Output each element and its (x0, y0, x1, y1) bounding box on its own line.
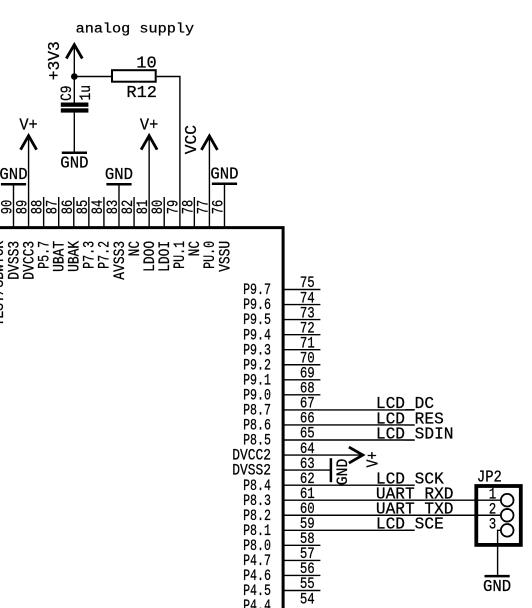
connector JP2 (476, 469, 521, 545)
wire pin 82 stub (133, 197, 135, 229)
wire pin 86 stub (73, 197, 75, 229)
pad 3 of JP2 (489, 516, 514, 537)
capacitor C9 value 1u (58, 85, 95, 113)
wire pin 62 (283, 484, 414, 486)
wire pin 84 stub (103, 197, 105, 229)
wire pin76 to ground (223, 184, 225, 229)
pad 1 of JP2 (489, 485, 514, 506)
svg-text:V+: V+ (19, 117, 37, 136)
wire pin 74 (283, 304, 320, 306)
wire pin 70 (283, 364, 320, 366)
ground below C9 (60, 153, 88, 174)
svg-text:R12: R12 (126, 84, 157, 103)
wire pin 61 (283, 499, 501, 501)
wire pin 57 (283, 559, 320, 561)
ground on pin 83 AVSS3 (105, 166, 133, 185)
wire pin 65 (283, 439, 414, 441)
wire pin 73 (283, 319, 320, 321)
resistor R12 value 10 (112, 54, 157, 103)
svg-text:analog supply: analog supply (76, 23, 195, 38)
supply V+ on pin 77 PU.0 (201, 136, 217, 150)
wire pin 80 stub (163, 197, 165, 229)
svg-text:VSSU: VSSU (216, 241, 234, 272)
wire pin 78 stub (193, 197, 195, 229)
ground on pin 90 DVSS3 (0, 166, 28, 185)
supply +3V3 (46, 41, 82, 80)
pad 2 of JP2 (489, 500, 514, 521)
supply V+ on pin 81 LDOO (141, 136, 157, 150)
svg-text:GND: GND (60, 154, 88, 173)
svg-text:GND: GND (334, 459, 352, 486)
wire pin89 to V+ (28, 136, 30, 229)
wire pin 87 stub (58, 197, 60, 229)
wire pin 68 (283, 394, 320, 396)
wire pin 72 (283, 334, 320, 336)
svg-text:10: 10 (136, 54, 156, 73)
ground on pin 76 VSSU (210, 165, 238, 184)
junction node (71, 73, 78, 80)
svg-text:C9: C9 (58, 86, 76, 102)
supply V+ on pin 89 DVCC3 (21, 136, 37, 150)
wire pin 69 (283, 379, 320, 381)
supply V+ on pin 64 DVCC2 (349, 447, 384, 467)
wire C9 to ground (73, 113, 75, 152)
ground on pin 63 DVSS2 (331, 458, 352, 485)
wire pin83 to ground (118, 184, 120, 229)
svg-text:V+: V+ (140, 117, 158, 136)
svg-text:GND: GND (105, 166, 133, 185)
wire pin 75 (283, 289, 320, 291)
wire pin 56 (283, 574, 320, 576)
wire pin 60 (283, 514, 501, 516)
wire pin 63 (283, 469, 331, 471)
wire pin 88 stub (43, 197, 45, 229)
wire pin 55 (283, 590, 320, 592)
svg-text:LCD_SDIN: LCD_SDIN (376, 425, 454, 444)
ground below JP2 (483, 576, 511, 597)
wire junction to R12 (74, 76, 112, 78)
svg-text:54: 54 (300, 590, 315, 608)
svg-text:3: 3 (489, 516, 497, 534)
svg-text:VCC: VCC (183, 125, 202, 154)
wire pin 59 (283, 529, 414, 531)
IC U1 body outline (0, 228, 283, 608)
wire pin 66 (283, 424, 414, 426)
wire pin 85 stub (88, 197, 90, 229)
svg-text:+3V3: +3V3 (46, 41, 65, 80)
svg-text:V+: V+ (365, 452, 384, 468)
svg-text:76: 76 (209, 200, 227, 215)
svg-text:1u: 1u (77, 85, 95, 101)
wire pin77 to V+ (208, 136, 210, 229)
svg-text:GND: GND (483, 578, 511, 597)
wire JP2 pin3 to ground (498, 530, 501, 575)
svg-text:GND: GND (0, 166, 28, 185)
wire VCC net (157, 77, 180, 230)
svg-text:LCD_SCE: LCD_SCE (376, 516, 444, 535)
svg-text:GND: GND (210, 165, 238, 184)
wire pin 67 (283, 409, 414, 411)
wire pin 71 (283, 349, 320, 351)
wire +3V3 vertical (73, 45, 75, 104)
wire pin81 to V+ (148, 136, 150, 229)
wire pin 58 (283, 544, 320, 546)
svg-text:P4.4: P4.4 (243, 597, 271, 608)
wire pin 64 (283, 454, 363, 456)
wire pin90 to ground (13, 184, 15, 229)
